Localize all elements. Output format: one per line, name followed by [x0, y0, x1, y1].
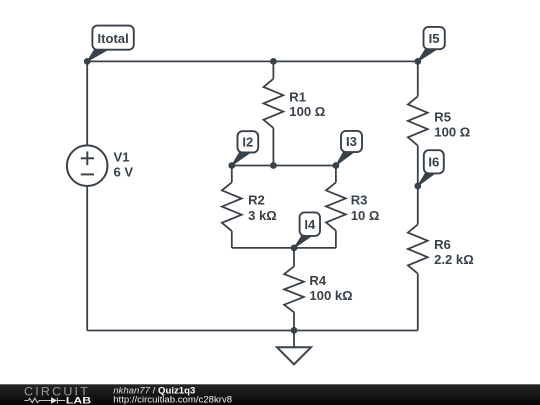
svg-text:6 V: 6 V: [114, 165, 134, 180]
svg-text:100 Ω: 100 Ω: [434, 125, 470, 140]
svg-text:100 kΩ: 100 kΩ: [309, 288, 352, 303]
svg-text:3 kΩ: 3 kΩ: [248, 208, 277, 223]
svg-text:R2: R2: [248, 193, 265, 208]
svg-text:100 Ω: 100 Ω: [289, 104, 325, 119]
svg-text:R3: R3: [351, 193, 368, 208]
svg-text:I6: I6: [428, 155, 439, 170]
svg-text:R6: R6: [434, 237, 451, 252]
svg-text:Itotal: Itotal: [97, 31, 128, 46]
svg-text:R1: R1: [289, 89, 306, 104]
svg-text:I3: I3: [346, 134, 357, 149]
svg-text:I2: I2: [242, 135, 253, 150]
svg-text:10 Ω: 10 Ω: [351, 208, 380, 223]
svg-text:V1: V1: [114, 150, 130, 165]
svg-text:http://circuitlab.com/c28krv8: http://circuitlab.com/c28krv8: [113, 395, 232, 405]
svg-text:R4: R4: [309, 273, 326, 288]
svg-text:I5: I5: [429, 31, 440, 46]
svg-text:I4: I4: [304, 217, 316, 232]
svg-text:R5: R5: [434, 110, 451, 125]
svg-text:2.2 kΩ: 2.2 kΩ: [434, 252, 474, 267]
svg-text:LAB: LAB: [66, 396, 92, 405]
